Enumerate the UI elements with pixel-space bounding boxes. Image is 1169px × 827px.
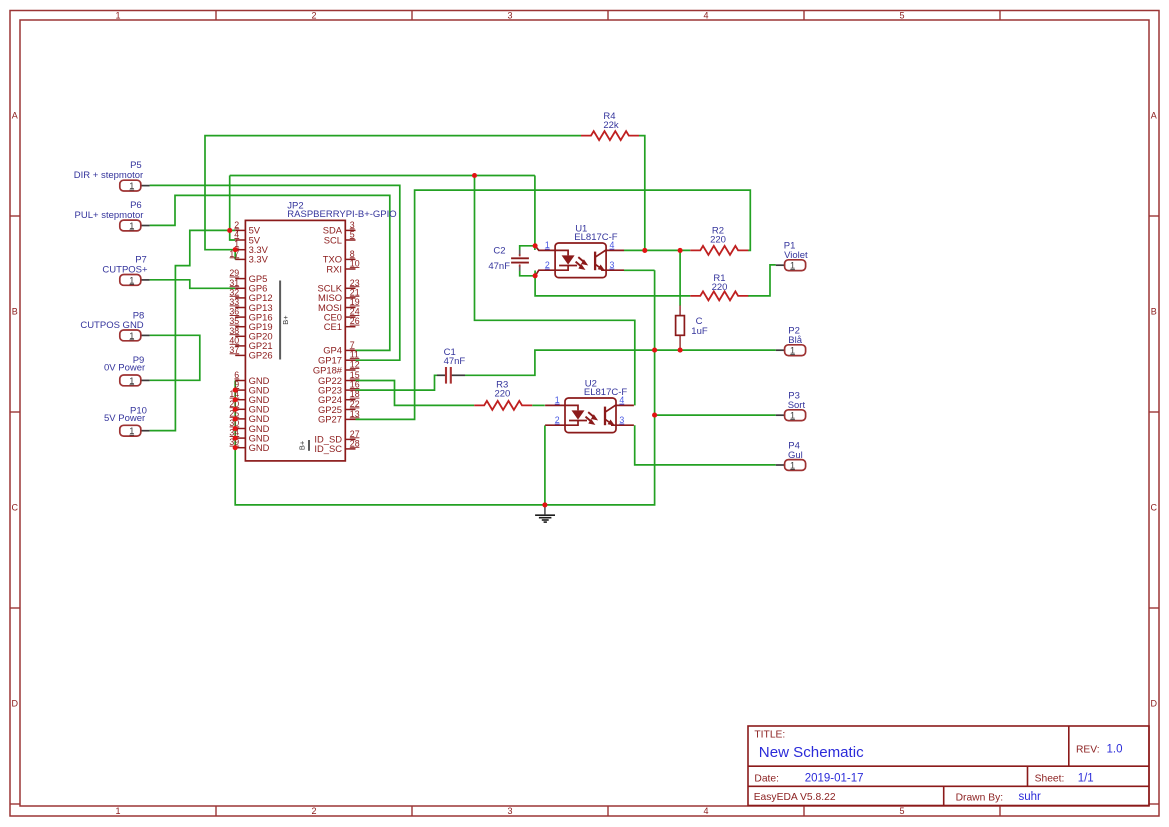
frame row letters left xyxy=(12,111,19,709)
wire 3.3V: JP2 pin1 to R4 left xyxy=(205,136,581,250)
JP2 pin 25 GND xyxy=(229,408,269,424)
connector P3 xyxy=(776,391,806,421)
svg-text:GP27: GP27 xyxy=(318,414,342,425)
JP2 pin 10 RXI xyxy=(326,259,359,275)
svg-text:B: B xyxy=(1151,307,1157,317)
JP2 pin 8 TXO xyxy=(323,249,356,265)
JP2 pin 26 CE1 xyxy=(324,316,360,332)
JP2 pin 21 MISO xyxy=(318,287,360,303)
svg-text:1: 1 xyxy=(790,411,795,421)
svg-text:3.3V: 3.3V xyxy=(249,254,269,265)
JP2 pin 34 GND xyxy=(229,428,269,444)
svg-text:Sort: Sort xyxy=(788,400,806,411)
svg-text:1: 1 xyxy=(129,221,134,231)
JP2 pin 37 GP26 xyxy=(229,345,272,361)
wire 5V net vertical at JP2 pin2 to pin4 xyxy=(230,176,236,241)
svg-text:RASPBERRYPI-B+-GPIO: RASPBERRYPI-B+-GPIO xyxy=(287,209,396,220)
connector P4 xyxy=(776,440,806,470)
JP2 pin 4 5V xyxy=(234,230,261,246)
JP2 B+ group bar lower xyxy=(297,440,309,451)
connector P2 xyxy=(776,326,806,356)
svg-text:A: A xyxy=(12,111,18,121)
optocoupler U2 EL817C-F xyxy=(545,378,634,432)
svg-text:1: 1 xyxy=(790,346,795,356)
svg-text:Violet: Violet xyxy=(784,250,808,261)
svg-text:1/1: 1/1 xyxy=(1078,772,1094,784)
svg-text:C2: C2 xyxy=(493,246,505,257)
JP2 pin 2 5V xyxy=(234,220,261,236)
frame row ticks left xyxy=(10,216,20,804)
svg-text:47nF: 47nF xyxy=(488,261,510,272)
svg-text:GP26: GP26 xyxy=(249,350,273,361)
JP2 pin 39 GND xyxy=(229,437,269,453)
svg-text:220: 220 xyxy=(710,235,726,246)
wire 5V net top horizontal to C2 column xyxy=(230,175,535,177)
svg-text:220: 220 xyxy=(712,282,728,293)
JP2 pin 14 GND xyxy=(229,389,269,405)
JP2 pin 1 3.3V xyxy=(234,239,268,255)
svg-text:4: 4 xyxy=(703,11,708,21)
ground symbol xyxy=(535,505,555,522)
JP2 pin 20 GND xyxy=(229,399,269,415)
JP2 pin 38 GP20 xyxy=(229,326,272,342)
svg-text:TITLE:: TITLE: xyxy=(754,730,785,741)
svg-text:CE1: CE1 xyxy=(324,321,342,332)
frame row letters right xyxy=(1151,111,1158,709)
wire R3 right to U2 pin1 xyxy=(532,404,545,406)
connector P10 xyxy=(104,405,150,436)
frame column ticks bottom xyxy=(216,806,1000,816)
wire P7/CUTPOS+ to GP6 xyxy=(150,280,236,289)
svg-text:22k: 22k xyxy=(603,120,619,131)
svg-text:D: D xyxy=(12,699,19,709)
wire U1 pin3 stub xyxy=(624,269,655,271)
connector P5 xyxy=(74,160,150,191)
JP2 pin 15 GP22 xyxy=(318,370,360,386)
svg-text:3: 3 xyxy=(507,806,512,816)
JP2 pin 18 GP24 xyxy=(318,389,360,405)
wire 5V branch down to U2 pin4 xyxy=(475,176,635,406)
JP2 pin 16 GP23 xyxy=(318,380,360,396)
JP2 pin 36 GP16 xyxy=(229,307,272,323)
capacitor C1 47nF xyxy=(437,347,465,384)
wire GP22 to R3 xyxy=(356,381,475,406)
wire P6/PUL to GP4 xyxy=(150,195,390,350)
JP2 pin 13 GP27 xyxy=(318,409,360,425)
svg-text:5: 5 xyxy=(899,11,904,21)
svg-text:0V Power: 0V Power xyxy=(104,363,145,374)
JP2 pin 31 GP6 xyxy=(229,278,267,294)
svg-text:EL817C-F: EL817C-F xyxy=(574,232,617,243)
connector P9 xyxy=(104,355,150,386)
svg-text:EL817C-F: EL817C-F xyxy=(584,387,627,398)
wire C1 right up and over to P2 line xyxy=(465,350,655,375)
svg-text:Drawn By:: Drawn By: xyxy=(956,792,1004,803)
wire U1 pin2 down to R1 line xyxy=(535,271,690,296)
wire U1 pin4 to R2 left xyxy=(624,249,690,251)
JP2 pin 7 GP4 xyxy=(323,340,355,356)
svg-text:D: D xyxy=(1151,699,1158,709)
wire P8 to P9 xyxy=(150,335,200,380)
wire U2 pin3 to P4 xyxy=(635,425,776,465)
svg-text:1: 1 xyxy=(555,395,560,405)
JP2 pin 30 GND xyxy=(229,418,269,434)
svg-text:1: 1 xyxy=(129,275,134,285)
JP2 pin 29 GP5 xyxy=(229,268,267,284)
connector P7 xyxy=(102,254,149,285)
IC JP2 RASPBERRYPI-B+-GPIO body xyxy=(245,200,396,461)
wire P2 line to connector xyxy=(655,349,776,351)
wire P3 line from GND column xyxy=(655,414,776,416)
JP2 pin 40 GP21 xyxy=(229,335,272,351)
JP2 pin 27 ID_SD xyxy=(314,429,359,445)
svg-text:2019-01-17: 2019-01-17 xyxy=(805,772,864,784)
svg-text:C: C xyxy=(12,503,19,513)
wire GP27 up and over to R2 xyxy=(356,190,751,419)
wire GND bus down JP2 left pins xyxy=(235,270,654,505)
svg-text:C: C xyxy=(1151,503,1158,513)
svg-text:5: 5 xyxy=(899,806,904,816)
svg-text:5V Power: 5V Power xyxy=(104,413,145,424)
svg-text:Blå: Blå xyxy=(788,335,802,346)
svg-text:ID_SC: ID_SC xyxy=(314,443,342,454)
wire R1 right to P1 xyxy=(748,265,776,296)
wire C2 bottom elbow xyxy=(520,271,535,276)
svg-text:1: 1 xyxy=(129,426,134,436)
svg-text:A: A xyxy=(1151,111,1157,121)
title block xyxy=(748,726,1149,806)
JP2 pin 12 GP18# xyxy=(313,360,360,376)
svg-text:New Schematic: New Schematic xyxy=(759,744,864,761)
wire 5V net: P10 up to JP2 pins 2/4 xyxy=(150,230,236,430)
svg-text:suhr: suhr xyxy=(1019,791,1042,803)
wire P5/DIR to GP17 xyxy=(150,185,400,360)
wire 5V net drop to C2/U1 pin1 xyxy=(534,176,536,251)
svg-text:220: 220 xyxy=(494,389,510,400)
svg-text:SCL: SCL xyxy=(324,234,342,245)
frame column ticks top xyxy=(216,11,1000,21)
JP2 pin 32 GP12 xyxy=(229,287,272,303)
resistor R3 220 xyxy=(474,379,532,410)
wire R4 right down to U1 pin4 line xyxy=(639,136,645,251)
svg-text:Sheet:: Sheet: xyxy=(1035,773,1065,784)
wire C2 top elbow xyxy=(520,246,535,250)
svg-text:Gul: Gul xyxy=(788,450,803,461)
connector P1 xyxy=(776,241,808,271)
wire U2 pin2 to GND xyxy=(544,425,546,505)
capacitor C 1uF xyxy=(676,305,708,348)
connector P6 xyxy=(75,200,150,231)
svg-text:RXI: RXI xyxy=(326,263,342,274)
svg-text:1uF: 1uF xyxy=(691,326,708,337)
JP2 pin 9 GND xyxy=(234,380,269,396)
svg-text:4: 4 xyxy=(703,806,708,816)
svg-text:CUTPOS+: CUTPOS+ xyxy=(102,265,148,276)
JP2 pin 35 GP19 xyxy=(229,316,272,332)
svg-text:Date:: Date: xyxy=(754,773,779,784)
svg-text:1: 1 xyxy=(115,806,120,816)
svg-text:EasyEDA V5.8.22: EasyEDA V5.8.22 xyxy=(754,792,836,803)
svg-text:GP18#: GP18# xyxy=(313,364,343,375)
svg-text:3: 3 xyxy=(507,11,512,21)
JP2 pin 17 3.3V xyxy=(229,249,268,265)
JP2 pin 6 GND xyxy=(234,370,269,386)
svg-text:1: 1 xyxy=(545,240,550,250)
resistor R1 220 xyxy=(690,273,748,301)
optocoupler U1 EL817C-F xyxy=(535,223,624,277)
svg-text:B+: B+ xyxy=(297,440,306,450)
JP2 pin 19 MOSI xyxy=(318,297,360,313)
svg-text:DIR + stepmotor: DIR + stepmotor xyxy=(74,170,143,181)
resistor R4 22k xyxy=(581,111,639,140)
svg-text:1.0: 1.0 xyxy=(1107,743,1123,755)
svg-text:2: 2 xyxy=(545,260,550,270)
svg-text:CUTPOS GND: CUTPOS GND xyxy=(80,320,143,331)
wire GP23 to C1 left xyxy=(356,375,438,390)
frame column numbers top xyxy=(115,11,904,21)
JP2 pin 11 GP17 xyxy=(318,350,359,366)
JP2 pin 5 SCL xyxy=(324,230,356,246)
JP2 pin 3 SDA xyxy=(323,220,356,236)
frame row ticks right xyxy=(1149,216,1159,804)
JP2 B+ group bar upper xyxy=(280,281,290,360)
wire 3.3V: JP2 pin1 to pin17 jog xyxy=(234,250,236,260)
svg-text:1: 1 xyxy=(129,331,134,341)
svg-text:B+: B+ xyxy=(281,315,290,325)
svg-text:REV:: REV: xyxy=(1076,744,1100,755)
svg-text:GND: GND xyxy=(249,442,270,453)
wire C 1uF top lead to R2 line xyxy=(679,250,681,305)
svg-text:2: 2 xyxy=(555,415,560,425)
svg-text:1: 1 xyxy=(790,460,795,470)
JP2 pin 23 SCLK xyxy=(318,278,360,294)
junction dots xyxy=(227,173,682,508)
resistor R2 220 xyxy=(690,226,748,255)
JP2 pin 22 GP25 xyxy=(318,399,360,415)
svg-text:1: 1 xyxy=(129,376,134,386)
svg-text:B: B xyxy=(12,307,18,317)
svg-text:1: 1 xyxy=(129,181,134,191)
svg-text:2: 2 xyxy=(311,806,316,816)
JP2 pin 28 ID_SC xyxy=(314,438,359,454)
svg-text:1: 1 xyxy=(790,261,795,271)
svg-text:3: 3 xyxy=(609,260,614,270)
svg-text:1: 1 xyxy=(115,11,120,21)
connector P8 xyxy=(80,311,149,341)
frame column numbers bottom xyxy=(115,806,904,816)
svg-text:2: 2 xyxy=(311,11,316,21)
JP2 pin 33 GP13 xyxy=(229,297,272,313)
capacitor C2 47nF xyxy=(488,246,529,272)
wire C 1uF bottom to P2 line xyxy=(679,348,681,350)
svg-text:PUL+ stepmotor: PUL+ stepmotor xyxy=(75,210,144,221)
JP2 pin 24 CE0 xyxy=(324,307,360,323)
svg-text:3: 3 xyxy=(619,415,624,425)
svg-text:47nF: 47nF xyxy=(444,356,466,367)
